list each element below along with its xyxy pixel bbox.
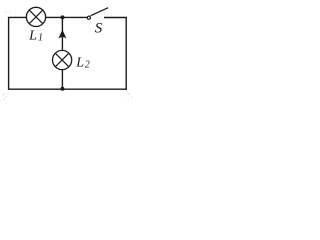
arrow (current direction, up) [58, 30, 66, 39]
lamp L2 [53, 50, 72, 69]
wire: middle branch lower [61, 69, 63, 89]
wire: right vertical [125, 18, 127, 90]
background [0, 0, 135, 103]
wire: top-left segment to lamp L1 [8, 16, 27, 18]
svg-text:S: S [95, 21, 103, 37]
wire: bottom horizontal [8, 88, 127, 90]
wire: left vertical [8, 17, 10, 89]
node B (bottom junction dot) [60, 87, 64, 91]
wire: middle branch upper [61, 17, 63, 50]
wire: top-right segment switch contact to corner [104, 17, 127, 19]
lamp L1 [26, 7, 45, 26]
switch S [87, 8, 108, 20]
node A (top junction dot) [61, 15, 65, 19]
wire: top segment lamp L1 to switch pivot [46, 16, 87, 18]
scan noise speckles [3, 11, 132, 100]
